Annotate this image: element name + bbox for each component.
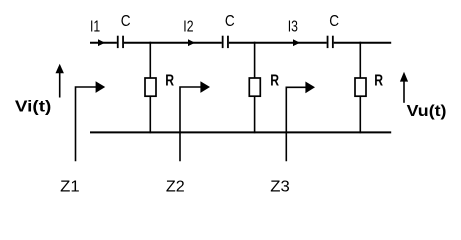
svg-text:R: R — [165, 73, 174, 90]
svg-text:R: R — [270, 72, 279, 89]
svg-text:Z3: Z3 — [270, 178, 290, 195]
svg-text:Z2: Z2 — [166, 178, 185, 195]
svg-text:C: C — [225, 13, 235, 30]
svg-text:I1: I1 — [90, 19, 100, 36]
svg-text:C: C — [121, 13, 131, 30]
svg-text:Z1: Z1 — [60, 178, 80, 195]
svg-text:R: R — [374, 72, 383, 89]
svg-text:C: C — [329, 13, 339, 30]
svg-text:I3: I3 — [288, 19, 298, 36]
svg-text:Vi(t): Vi(t) — [15, 98, 51, 115]
svg-text:I2: I2 — [183, 19, 193, 36]
svg-text:Vu(t): Vu(t) — [407, 103, 447, 120]
